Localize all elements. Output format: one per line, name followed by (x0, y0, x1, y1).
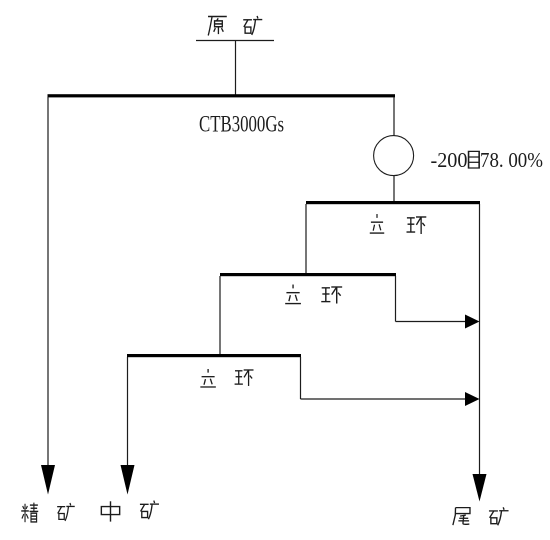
wire: bar1 right end down to sizing circle (393, 97, 395, 136)
arrow: middlings down arrow (121, 465, 135, 495)
label: concentrate 矿 (57, 503, 75, 521)
label: tailings 矿 (489, 507, 509, 525)
arrow: overflow 1 right arrow (465, 315, 480, 329)
label: raw ore 原 (208, 16, 227, 35)
arrow: tailings down arrow (473, 474, 487, 502)
wire: feed drop from raw ore to separator bar (235, 41, 237, 96)
wire: middlings line down (127, 357, 129, 466)
scavenger bar 3 (立环) (127, 354, 301, 357)
label: tailings 尾 (453, 508, 470, 525)
svg-text:78. 00%: 78. 00% (480, 148, 543, 172)
wire: underline below raw-ore label (196, 40, 274, 42)
svg-text:CTB3000Gs: CTB3000Gs (199, 112, 284, 137)
label: 立 (bar2) (285, 285, 301, 304)
label: raw ore 矿 (243, 16, 262, 35)
label: 立 (bar1) (370, 214, 384, 233)
label: middlings 中 (101, 501, 119, 521)
arrow: concentrate down arrow (41, 465, 55, 495)
arrow: overflow 2 right arrow (465, 392, 480, 406)
label: concentrate 精 (21, 503, 38, 523)
label: 环 (bar3) (235, 370, 254, 386)
wire: circle bottom to scavenger bar 1 (393, 176, 395, 202)
separator bar CTB3000Gs (48, 94, 396, 97)
wire: bar3-left drop to bar4 (219, 276, 221, 355)
wire: middling overflow 2 to tailings line (301, 398, 467, 400)
sizing circle (classifier node) (374, 136, 414, 176)
wire: tailings main line down (right) (479, 204, 481, 475)
scavenger bar 1 (立环) (306, 201, 480, 204)
wire: bar3-right drop (395, 276, 397, 322)
svg-text:-200: -200 (431, 148, 468, 172)
wire: bar2-left drop to bar3 (305, 204, 307, 274)
wire: bar4-right drop (300, 357, 302, 399)
label: 立 (bar3) (200, 369, 216, 387)
scavenger bar 2 (立环) (220, 273, 396, 276)
label: 环 (bar2) (321, 287, 342, 304)
label: middlings 矿 (140, 501, 159, 520)
label: 环 (bar1) (407, 217, 427, 234)
wire: middling overflow 1 to tailings line (396, 321, 467, 323)
wire: concentrate line down (left) (47, 97, 49, 466)
